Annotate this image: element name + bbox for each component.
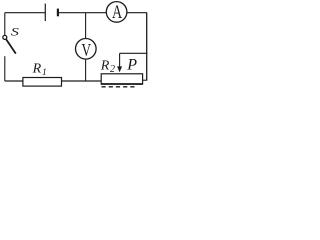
svg-text:P: P: [126, 57, 137, 74]
svg-text:V: V: [81, 40, 91, 60]
svg-text:S: S: [11, 25, 19, 39]
svg-text:1: 1: [42, 68, 47, 78]
svg-text:A: A: [112, 2, 122, 23]
svg-text:R: R: [100, 59, 110, 74]
svg-text:R: R: [32, 62, 42, 77]
svg-text:2: 2: [110, 64, 115, 75]
